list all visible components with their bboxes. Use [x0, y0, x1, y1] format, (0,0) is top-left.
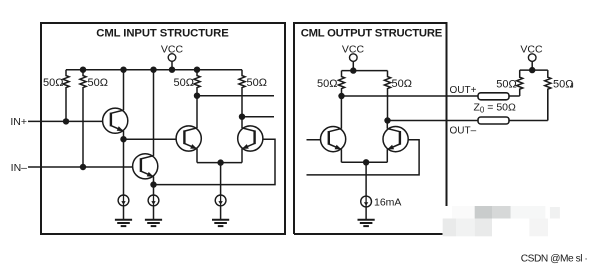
wire Q1 emitter to node A: [123, 131, 125, 139]
node rail-R3: [194, 67, 200, 73]
node tail Q3/Q4: [217, 159, 223, 165]
resistor R5 50ohm: [338, 71, 344, 96]
resistor R4 50ohm: [239, 70, 245, 117]
resistor R7 50ohm: [517, 70, 523, 96]
svg-text:50Ω: 50Ω: [174, 77, 194, 89]
node R4 tap: [239, 114, 245, 120]
wire supply rail (termination): [520, 69, 548, 71]
transmission line Z0 OUT-: [478, 117, 509, 124]
wire Q5 emitter down: [340, 149, 342, 162]
wire Q2 collector: [153, 70, 155, 156]
wire R4 to Q4 collector: [241, 117, 243, 128]
wire Q2 emitter to node B: [153, 176, 155, 184]
transistor Q4 (mirrored): [238, 126, 263, 151]
transmission line Z0 OUT+: [478, 93, 509, 100]
ground (I3): [212, 220, 229, 226]
node R2-IN-: [80, 164, 86, 170]
svg-text:50Ω: 50Ω: [247, 77, 267, 89]
resistor R3 50ohm: [194, 70, 200, 96]
transistor Q3: [176, 126, 201, 151]
wire node B to Q4 base riser: [154, 139, 276, 184]
node rail-VCC: [169, 67, 175, 73]
node R6-OUT-: [384, 117, 390, 123]
current source I2: [148, 195, 159, 206]
wire R4 tap stub out: [242, 116, 274, 118]
node rail-Q2 collector: [150, 67, 156, 73]
wire current source I4 to ground: [365, 207, 367, 219]
node tail Q5/Q6: [363, 159, 369, 165]
svg-text:Z0 = 50Ω: Z0 = 50Ω: [474, 102, 517, 115]
wire OUT+: [342, 95, 520, 97]
wire Q6 emitter to tail: [366, 161, 387, 163]
resistor R8 50ohm: [545, 70, 551, 120]
wire Q5 emitter to tail: [341, 161, 366, 163]
svg-text:OUT–: OUT–: [450, 125, 477, 136]
resistor R6 50ohm: [384, 71, 390, 121]
svg-text:CML OUTPUT STRUCTURE: CML OUTPUT STRUCTURE: [301, 28, 443, 40]
ground (I4): [358, 220, 375, 226]
svg-text:IN+: IN+: [10, 116, 27, 128]
transistor Q6 (mirrored): [383, 127, 408, 152]
VCC terminal (termination): [528, 54, 536, 62]
wire current source I2 to ground: [153, 206, 155, 220]
wire VCC lead (input): [171, 61, 173, 69]
node rail-Q1 collector: [120, 67, 126, 73]
transistor Q2: [133, 154, 158, 179]
svg-text:50Ω: 50Ω: [88, 77, 108, 89]
wire Q6 emitter down: [386, 149, 388, 162]
wire node A to current source I1: [123, 139, 125, 195]
wire node B to current source I2: [153, 185, 155, 196]
svg-text:16mA: 16mA: [374, 196, 401, 208]
watermark mosaic: [452, 206, 475, 219]
svg-text:CML INPUT STRUCTURE: CML INPUT STRUCTURE: [96, 28, 229, 40]
VCC terminal (input): [168, 54, 176, 62]
ground (I2): [145, 220, 162, 226]
wire Q3 emitter to tail node: [197, 162, 221, 164]
node R3 tap: [194, 93, 200, 99]
wire Q5 base stub: [307, 139, 329, 141]
wire node A to Q3 base: [124, 138, 185, 140]
current source I3: [215, 195, 226, 206]
node R5-OUT+: [338, 93, 344, 99]
transistor Q5: [321, 127, 346, 152]
wire Q4 emitter to tail node: [221, 162, 242, 164]
wire tail node to current source I3: [220, 163, 222, 196]
transistor Q1: [103, 108, 128, 133]
wire OUT- riser to R8: [547, 89, 549, 120]
wire Q1 collector: [123, 70, 125, 111]
svg-text:50Ω: 50Ω: [392, 78, 412, 90]
svg-text:OUT+: OUT+: [450, 85, 477, 96]
wire tail to current source I4: [365, 162, 367, 196]
svg-text:50Ω: 50Ω: [317, 78, 337, 90]
node R1-IN+: [63, 118, 69, 124]
svg-text:IN–: IN–: [11, 162, 28, 174]
current source I1: [118, 195, 129, 206]
wire VCC lead (termination): [531, 61, 533, 70]
svg-text:50Ω: 50Ω: [496, 79, 516, 91]
wire current source I3 to ground: [220, 206, 222, 220]
input structure box: [41, 23, 285, 234]
node rail-VCC (termination): [529, 67, 535, 73]
node rail-VCC (output): [350, 67, 356, 73]
VCC terminal (output): [350, 54, 358, 62]
wire Q6 base loop: [307, 140, 420, 175]
wire Q4 emitter down: [241, 149, 243, 163]
wire OUT-: [388, 120, 548, 122]
wire IN-: [28, 166, 141, 168]
svg-text:50Ω: 50Ω: [43, 77, 63, 89]
wire Q3 emitter down: [196, 149, 198, 163]
wire VCC lead (output): [352, 61, 354, 70]
wire IN+: [28, 120, 111, 122]
current source I4 16mA: [361, 196, 372, 207]
node B Q2 emitter: [150, 181, 156, 187]
wire R5 to Q5 collector: [340, 96, 342, 129]
svg-text:CSDN @Me sl ·: CSDN @Me sl ·: [521, 253, 588, 264]
svg-text:50Ω: 50Ω: [553, 79, 573, 91]
wire current source I1 to ground: [123, 206, 125, 220]
wire Q6 collector: [386, 121, 388, 129]
wire supply rail (input): [66, 69, 242, 71]
output structure box: [294, 23, 447, 234]
wire R3 to Q3 collector: [196, 96, 198, 128]
wire supply rail (output): [342, 70, 388, 72]
ground (I1): [115, 220, 132, 226]
label artifact after R8: [571, 83, 573, 87]
resistor R1 50ohm: [63, 70, 69, 122]
node A Q1 emitter: [120, 136, 126, 142]
node rail-R2: [80, 67, 86, 73]
wire R3 tap stub out: [197, 95, 274, 97]
resistor R2 50ohm: [80, 70, 86, 167]
